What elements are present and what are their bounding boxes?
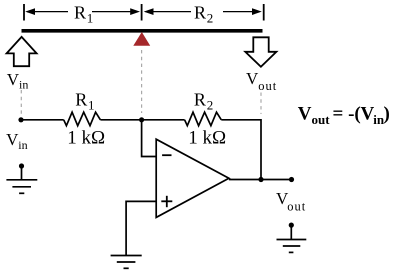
op-amp inverting input marker	[162, 154, 171, 156]
resistor R2	[185, 112, 222, 126]
wire output to Vout terminal	[229, 179, 292, 181]
node junction	[139, 117, 144, 122]
dashed line Vin to input node	[20, 90, 22, 114]
arrow Vout down	[245, 37, 276, 67]
svg-text:V: V	[7, 70, 20, 89]
dimension tick left	[23, 4, 25, 21]
label Vin (input)	[6, 130, 28, 152]
svg-text:2: 2	[207, 97, 214, 112]
svg-text:R: R	[74, 3, 86, 23]
arrow Vin up	[7, 37, 37, 66]
svg-text:V: V	[298, 104, 312, 125]
label R1 (lever span)	[74, 3, 93, 26]
dimension tick center	[141, 4, 143, 21]
wire junction down to inverting input	[142, 120, 157, 157]
svg-text:in: in	[18, 138, 27, 152]
svg-text:R: R	[75, 90, 87, 110]
node output junction	[258, 177, 263, 182]
dashed line fulcrum to junction	[141, 50, 143, 113]
svg-text:in: in	[19, 78, 28, 92]
svg-text:out: out	[312, 112, 331, 127]
formula Vout = -(Vin)	[298, 104, 390, 128]
label Vout (lever)	[246, 69, 277, 93]
ground (noninverting)	[111, 256, 142, 269]
svg-text:2: 2	[207, 11, 214, 26]
label R2	[194, 90, 213, 113]
label R2 (lever span)	[194, 3, 213, 26]
wire R1 to junction to R2	[100, 119, 184, 121]
lever beam	[22, 29, 263, 33]
wire input node to R1	[21, 119, 64, 121]
dimension arrow R2 right	[223, 8, 262, 15]
label Vin (lever)	[7, 70, 29, 92]
dimension arrow R1 right	[92, 8, 140, 15]
ground (input)	[6, 163, 37, 193]
label Vout (output)	[276, 189, 306, 214]
svg-text:1: 1	[88, 97, 95, 112]
node Vout terminal	[289, 177, 294, 182]
node Vin input terminal	[18, 117, 23, 122]
svg-text:V: V	[246, 69, 259, 88]
label R1	[75, 90, 94, 113]
svg-text:R: R	[194, 3, 206, 23]
dashed line Vout to feedback corner	[260, 93, 262, 115]
wire feedback corner down to output	[260, 119, 262, 180]
svg-text:= -(: = -(	[333, 104, 361, 125]
dimension arrow R2 left	[144, 8, 191, 15]
dimension arrow R1 left	[25, 8, 68, 15]
wire noninverting input to ground	[126, 201, 156, 255]
svg-text:out: out	[258, 79, 277, 93]
svg-text:1: 1	[87, 11, 94, 26]
wire R2 to feedback corner	[221, 119, 261, 121]
op-amp U1	[156, 139, 229, 217]
svg-text:1 kΩ: 1 kΩ	[67, 127, 105, 148]
ground (output)	[277, 223, 307, 253]
resistor R1	[64, 112, 101, 126]
op-amp noninverting input marker	[161, 196, 172, 207]
svg-text:V: V	[6, 130, 19, 149]
fulcrum	[133, 32, 150, 46]
svg-text:): )	[384, 104, 390, 125]
dimension tick right	[263, 4, 265, 21]
svg-text:1 kΩ: 1 kΩ	[188, 127, 226, 148]
svg-text:R: R	[194, 90, 206, 110]
svg-text:out: out	[287, 200, 306, 214]
